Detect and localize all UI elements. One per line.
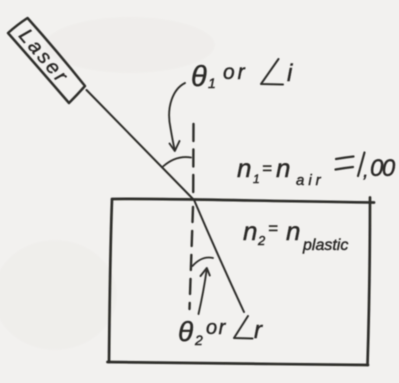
theta2 angle arc [193,258,214,266]
laser box [8,18,85,103]
svg-text:n: n [286,216,300,246]
svg-text:i: i [287,60,293,87]
svg-text:θ: θ [191,61,207,93]
svg-text:or: or [223,61,248,84]
svg-text:or: or [206,317,227,339]
svg-text:θ: θ [178,316,193,347]
curved arrow from theta1 label to angle [169,83,185,149]
normal below surface (dashed) [190,207,194,309]
plastic block right edge [368,198,371,366]
svg-text:n: n [237,153,251,183]
svg-text:1: 1 [253,172,260,186]
arrowhead of theta2 arrow [201,268,210,276]
refracted ray [195,201,245,312]
svg-text:n: n [243,216,257,246]
arrowhead of theta1 arrow [170,141,180,151]
incident ray [87,90,195,200]
normal above surface (dashed) [192,124,195,197]
plastic block bottom edge [108,362,369,365]
angle symbol of theta2 label [234,316,253,339]
svg-text:air: air [296,172,325,189]
svg-text:=: = [262,159,272,178]
svg-text:,: , [363,160,369,182]
theta1 angle arc [163,157,191,166]
svg-text:n: n [276,153,290,183]
angle symbol of theta1 label [261,59,283,85]
arrow from theta2 label to angle [199,271,207,314]
paper smudge bottom [0,240,117,350]
svg-text:1: 1 [208,75,216,91]
plastic block left edge [109,200,112,363]
svg-text:=: = [268,219,278,238]
paper smudge top [45,17,215,73]
svg-text:r: r [254,317,263,344]
svg-text:plastic: plastic [302,237,348,254]
svg-text:00: 00 [370,155,396,182]
svg-text:2: 2 [257,233,266,248]
plastic block top edge [112,199,374,203]
svg-text:2: 2 [194,332,203,348]
